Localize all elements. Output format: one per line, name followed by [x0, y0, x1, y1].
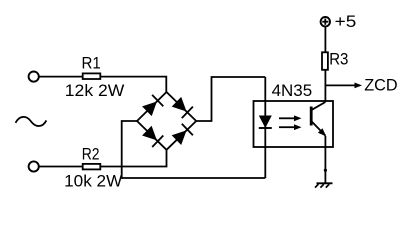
AC source	[16, 117, 47, 126]
svg-text:R3: R3	[329, 51, 348, 69]
wire top: terminal to bridge top	[39, 77, 166, 92]
svg-text:R2: R2	[82, 145, 100, 163]
wire bridge left corner to LED cathode return	[122, 121, 266, 178]
diode D1 (bridge upper-left)	[137, 92, 167, 121]
ground	[315, 183, 333, 187]
svg-text:12k 2W: 12k 2W	[65, 82, 125, 100]
svg-text:4N35: 4N35	[272, 82, 313, 100]
wire collector rail	[324, 70, 326, 102]
diode D3 (bridge lower-left)	[137, 121, 167, 150]
resistor R1	[83, 73, 101, 79]
diode D2 (bridge upper-right)	[167, 92, 197, 121]
wire emitter to ground	[324, 136, 326, 183]
terminal top-left	[29, 72, 39, 82]
diode D4 (bridge lower-right)	[167, 121, 197, 150]
wire bridge right corner to LED anode	[196, 77, 265, 121]
terminal bottom-left	[29, 161, 39, 171]
supply +5	[321, 17, 330, 26]
light arrow upper	[279, 115, 302, 121]
svg-text:10k 2W: 10k 2W	[64, 172, 123, 190]
node ZCD output arrow	[325, 83, 362, 89]
svg-text:+5: +5	[335, 13, 357, 31]
resistor R3	[322, 52, 328, 70]
wire +5 to R3	[324, 27, 326, 52]
resistor R2	[83, 164, 101, 170]
optocoupler U1 box	[254, 101, 334, 147]
wire bottom: terminal to bridge bottom	[39, 150, 166, 167]
svg-text:ZCD: ZCD	[364, 77, 397, 95]
transistor Q1 (opto output)	[311, 102, 326, 136]
light arrow lower	[279, 124, 302, 130]
junction emitter pin	[324, 169, 327, 172]
svg-text:R1: R1	[82, 55, 101, 73]
LED D5 (opto emitter diode)	[259, 77, 272, 178]
